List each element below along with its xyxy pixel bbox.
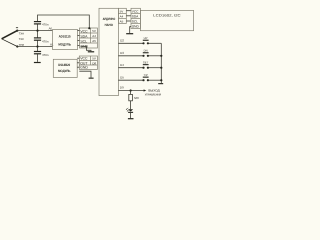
wire capacitor rail [37, 24, 39, 62]
node TC minus [16, 45, 18, 47]
ground LCD [126, 33, 133, 34]
wire D4 right [148, 67, 161, 69]
button UP [142, 40, 149, 45]
wire D3 left [118, 55, 143, 57]
svg-text:470n: 470n [42, 53, 49, 57]
node bus [160, 67, 162, 69]
svg-text:VCC: VCC [80, 57, 88, 61]
node rail A1 [36, 45, 38, 47]
svg-text:D2: D2 [120, 39, 124, 43]
svg-text:ADS1115: ADS1115 [59, 34, 71, 38]
wire R1 to LED [130, 101, 132, 109]
wire DS GND drop [79, 71, 91, 77]
node output junction [130, 89, 132, 91]
node TC plus [16, 30, 18, 32]
LED arrows [126, 108, 129, 111]
arduino top pin cells [118, 8, 126, 23]
svg-text:A4: A4 [92, 34, 96, 38]
DS pin table [79, 56, 97, 69]
wire D2 right [148, 42, 161, 44]
thermocouple BK1 negative leg [2, 39, 18, 47]
node bus [160, 55, 162, 57]
MCU Arduino Nano box [99, 8, 118, 95]
plus polarity mark [16, 26, 18, 29]
LCD pin table [131, 8, 140, 28]
wire button bus [160, 43, 162, 83]
svg-text:SCL: SCL [80, 39, 87, 43]
wire LCD GND drop [129, 26, 131, 33]
ground cap rail [34, 62, 41, 63]
node bus [160, 79, 162, 81]
svg-text:SDA: SDA [132, 15, 139, 19]
svg-text:DS18B20: DS18B20 [58, 63, 70, 67]
node ADS VCC junction [88, 27, 90, 29]
node rail A0 [36, 30, 38, 32]
svg-text:VCC: VCC [132, 10, 139, 14]
svg-text:OUT: OUT [80, 61, 88, 65]
svg-text:SDA: SDA [80, 34, 88, 38]
thermocouple BK1 positive leg (thick) [2, 31, 18, 39]
capacitor C1 470n [34, 21, 41, 25]
svg-text:UP: UP [144, 36, 148, 40]
svg-text:560: 560 [134, 96, 139, 100]
wire stubs ADS pins [78, 31, 80, 46]
wire D2 left [118, 42, 143, 44]
wire I2C VCC [126, 10, 131, 12]
display LCD1602 box [140, 10, 193, 30]
wire ADS GND drop [81, 46, 91, 51]
wire LCD GND stub [130, 25, 131, 27]
svg-text:НАНО: НАНО [105, 23, 114, 27]
button T/P [142, 77, 149, 82]
svg-text:МОДУЛЬ: МОДУЛЬ [58, 42, 71, 46]
svg-text:A4: A4 [120, 15, 124, 19]
svg-text:D5: D5 [120, 76, 124, 80]
ground LED [128, 118, 134, 119]
wire I2C SDA [126, 15, 131, 17]
ADS pin table [80, 28, 98, 48]
svg-text:LCD1602, I2C: LCD1602, I2C [153, 13, 181, 17]
wire D5 left [118, 79, 143, 81]
svg-text:D8: D8 [92, 61, 96, 65]
svg-text:SET: SET [143, 60, 149, 64]
wire LED to ground [130, 113, 132, 118]
svg-text:A1: A1 [50, 42, 54, 46]
svg-text:A5: A5 [92, 39, 96, 43]
arrow output [144, 89, 147, 91]
svg-text:УПРАВЛЕНИЯ: УПРАВЛЕНИЯ [145, 92, 162, 96]
module U1 ADS1115 box [53, 30, 78, 50]
svg-text:D4: D4 [120, 63, 124, 67]
svg-text:D3: D3 [120, 51, 124, 55]
button SET [142, 64, 149, 69]
svg-text:GND: GND [80, 66, 88, 70]
sensor DS18B20 box [53, 59, 77, 77]
wire stubs DS pins [77, 58, 79, 67]
svg-text:5V: 5V [92, 29, 96, 33]
wire net A0 [17, 30, 52, 32]
capacitor C3 470n [34, 51, 41, 55]
wire to R1 [130, 91, 132, 95]
ground DS [89, 78, 94, 79]
resistor R1 [129, 94, 133, 100]
svg-text:VCC: VCC [80, 29, 88, 33]
svg-text:GND: GND [132, 25, 140, 29]
wire 5V feed to ADS VCC [38, 15, 90, 28]
svg-text:D9: D9 [120, 86, 124, 90]
svg-text:SCL: SCL [132, 20, 138, 24]
svg-text:DN: DN [144, 48, 148, 52]
svg-text:A0: A0 [49, 27, 53, 31]
svg-text:T/P: T/P [143, 73, 147, 77]
svg-text:470n: 470n [42, 40, 49, 44]
svg-text:ТХК: ТХК [19, 38, 24, 41]
LED HL1 [128, 109, 133, 113]
capacitor C2 470n [34, 37, 41, 41]
button DN [142, 52, 149, 57]
svg-text:МОДУЛЬ: МОДУЛЬ [58, 69, 71, 73]
wire I2C SCL [126, 20, 131, 22]
wire D3 right [148, 55, 161, 57]
svg-text:5V: 5V [120, 10, 124, 14]
svg-text:A5: A5 [120, 20, 124, 24]
svg-text:ТХА: ТХА [19, 32, 24, 35]
ground bus [158, 83, 163, 84]
wire D4 left [118, 67, 143, 69]
wire D5 right [148, 79, 161, 81]
ground ADS [88, 51, 94, 52]
svg-text:5V: 5V [92, 57, 96, 61]
wire output [118, 90, 144, 92]
svg-text:АРДУИНО: АРДУИНО [103, 17, 116, 21]
wire net A1 [17, 46, 52, 48]
